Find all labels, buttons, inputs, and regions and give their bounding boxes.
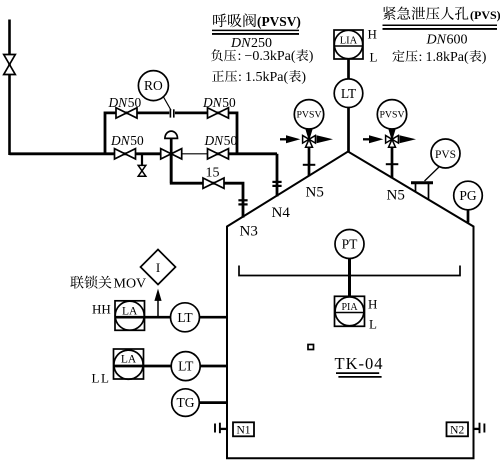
svg-text:N1: N1	[236, 424, 250, 436]
manhole fitting on right roof (DN600)	[416, 184, 429, 200]
svg-text:(PVS): (PVS)	[470, 8, 500, 22]
svg-text:LA: LA	[121, 354, 137, 366]
svg-text:−0.3kPa(: −0.3kPa(	[245, 49, 296, 64]
svg-text:1.8kPa(: 1.8kPa(	[426, 50, 470, 65]
header: positive pressure line	[212, 70, 224, 81]
svg-text:TK-04: TK-04	[335, 354, 384, 373]
svg-text:LIA: LIA	[340, 36, 358, 47]
svg-text:DN: DN	[204, 133, 225, 148]
wire TG to tank	[198, 401, 228, 404]
valve DN50 bottom-right	[208, 149, 229, 159]
control valve with dome actuator	[170, 138, 173, 183]
svg-text:50: 50	[222, 95, 236, 110]
svg-text:PT: PT	[342, 237, 359, 252]
header: double rule left	[212, 29, 299, 31]
svg-text:N3: N3	[240, 224, 258, 240]
svg-text:PVSV: PVSV	[379, 110, 404, 121]
svg-text:N2: N2	[450, 424, 464, 436]
svg-text:TG: TG	[177, 395, 195, 410]
svg-text:I: I	[156, 260, 160, 275]
header: negative pressure line	[211, 49, 223, 61]
instrument PG circle	[454, 181, 483, 210]
svg-text:600: 600	[447, 33, 468, 48]
label: interlock close MOV	[70, 276, 83, 289]
header: set pressure line	[392, 50, 404, 62]
svg-text:(PVSV): (PVSV)	[257, 14, 301, 29]
drain valve (small) below main line	[138, 165, 146, 176]
svg-text:): )	[482, 50, 487, 65]
svg-text:DN: DN	[108, 95, 129, 110]
svg-text:50: 50	[128, 95, 142, 110]
wire 15-branch pipe from control valve down to N3	[171, 154, 243, 218]
header: emergency relief manhole title	[383, 7, 396, 20]
svg-text:HH: HH	[92, 302, 111, 317]
svg-text:L: L	[370, 50, 378, 65]
node: small square mark inside tank	[308, 345, 314, 350]
svg-text:50: 50	[130, 133, 144, 148]
svg-text:DN: DN	[110, 133, 131, 148]
flange pair on N3 pipe	[238, 199, 247, 201]
svg-text:): )	[301, 70, 306, 85]
interlock diamond I with arrow	[157, 301, 159, 318]
wire thin line from RO circle to orifice	[163, 97, 171, 111]
svg-text:PIA: PIA	[341, 302, 358, 313]
wire PVSV right pipe to roof	[391, 147, 394, 178]
flange pair on N4 pipe	[272, 181, 281, 183]
svg-text:N5: N5	[387, 188, 405, 204]
svg-text:LA: LA	[122, 306, 138, 318]
instrument LT2 circle	[171, 352, 200, 381]
tank internal bracket	[239, 266, 460, 276]
svg-text:PVSV: PVSV	[296, 110, 321, 121]
instrument PT circle	[335, 230, 364, 259]
svg-text:LT: LT	[178, 359, 194, 374]
svg-text:LL: LL	[92, 371, 111, 386]
svg-text:RO: RO	[144, 78, 163, 93]
nozzle N1 (blind flange)	[220, 428, 228, 430]
svg-text:N4: N4	[272, 205, 291, 221]
instrument LT1 circle	[171, 303, 200, 332]
wire apex riser to LT	[347, 108, 350, 153]
instrument LA lower (LL) square+circle	[114, 350, 143, 379]
wire LT to LIA	[347, 59, 350, 79]
svg-text::: :	[238, 49, 242, 64]
wire main horizontal pipe	[10, 152, 183, 155]
instrument PVSV circle (left)	[294, 100, 323, 129]
restriction orifice RO on top branch	[169, 108, 175, 119]
svg-text:L: L	[369, 317, 377, 332]
svg-text:1.5kPa(: 1.5kPa(	[245, 70, 289, 85]
instrument LIA (square+circle) with H/L	[334, 30, 362, 58]
svg-text:PG: PG	[459, 188, 477, 203]
wire thin line PVS to manhole	[425, 166, 441, 181]
svg-text:15: 15	[206, 166, 220, 181]
valve DN50 top-left	[116, 108, 137, 118]
header: double rule right	[383, 24, 498, 26]
svg-text:H: H	[368, 27, 377, 42]
svg-text:N5: N5	[306, 185, 324, 201]
instrument RO circle	[138, 71, 168, 101]
instrument LA upper (HH) square+circle	[115, 301, 144, 330]
instrument PVSV circle (right)	[377, 100, 406, 129]
valve on inlet vertical pipe	[4, 55, 16, 75]
svg-text:50: 50	[224, 133, 238, 148]
instrument PIA (square+circle) with H/L	[335, 297, 364, 326]
wire bypass loop: left riser, top branch, right riser	[105, 113, 237, 154]
valve DN50 bottom-left	[115, 149, 136, 159]
wire thin line between control valve and right DN50 valve	[182, 153, 208, 155]
svg-text:): )	[309, 49, 314, 64]
svg-text:LT: LT	[341, 86, 357, 101]
PVSV relief valve symbol (left)	[280, 138, 287, 140]
svg-text:DN: DN	[202, 95, 223, 110]
svg-text:MOV: MOV	[114, 277, 147, 292]
svg-text:PVS: PVS	[435, 149, 456, 161]
tank TK-04 outline	[227, 152, 474, 459]
wire inlet vertical pipe	[8, 20, 11, 156]
svg-text:DN: DN	[426, 33, 447, 48]
header: breathing valve title	[213, 14, 227, 28]
svg-text::: :	[419, 50, 423, 65]
wire PVSV left pipe to roof	[308, 147, 311, 176]
wire N4 drop pipe to tank roof	[276, 154, 279, 197]
wire drain stem	[141, 154, 143, 166]
wire PT to PIA	[348, 257, 351, 297]
svg-text:LT: LT	[177, 310, 193, 325]
valve DN50 top-right	[208, 108, 229, 118]
valve 15 on branch to N3	[203, 178, 224, 188]
wire LA2 to LT2 to tank	[114, 365, 228, 368]
svg-text::: :	[238, 70, 242, 85]
instrument LT (top)	[334, 79, 363, 108]
wire LA1 to LT1 to tank	[115, 316, 228, 319]
wire PG stem	[467, 209, 470, 223]
instrument PVS circle	[431, 139, 460, 168]
nozzle N2 (blind flange)	[474, 428, 480, 430]
svg-text:H: H	[368, 297, 377, 312]
PVSV relief valve symbol (right)	[363, 138, 370, 140]
